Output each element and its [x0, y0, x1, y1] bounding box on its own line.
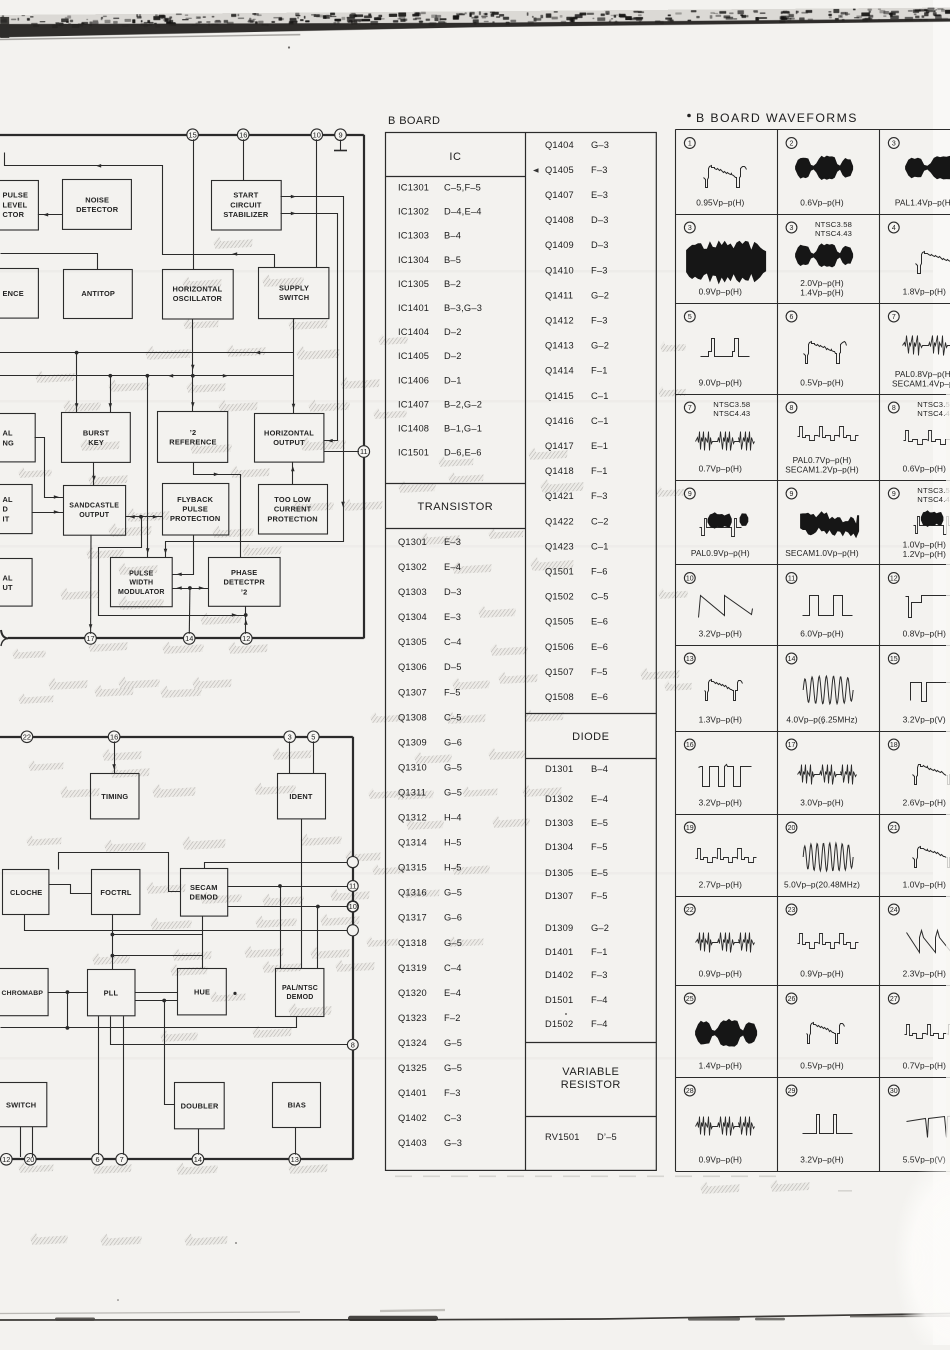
- svg-text:’2: ’2: [190, 428, 197, 437]
- svg-text:BURST: BURST: [83, 428, 110, 437]
- svg-text:Q1412: Q1412: [545, 316, 574, 326]
- svg-text:16: 16: [686, 742, 694, 749]
- svg-text:Q1401: Q1401: [398, 1088, 427, 1098]
- svg-text:24: 24: [890, 907, 898, 914]
- waveform cell 1: [684, 138, 746, 208]
- svg-text:NG: NG: [3, 438, 15, 447]
- pin 15: [187, 129, 199, 141]
- transistor row Q1310: [398, 762, 462, 772]
- svg-text:3: 3: [790, 225, 794, 232]
- svg-text:Q1320: Q1320: [398, 988, 427, 998]
- svg-text:0.5Vp–p(H): 0.5Vp–p(H): [800, 378, 844, 388]
- svg-text:1: 1: [688, 141, 692, 148]
- block CHROMA BANDPASS (cut at page edge): [0, 969, 48, 1016]
- svg-text:C–4: C–4: [444, 963, 462, 973]
- wire: pin 16 down to start circuit stabilizer: [243, 139, 245, 180]
- svg-text:14: 14: [194, 1155, 202, 1164]
- wire: cloche to foctrl: [49, 885, 92, 894]
- waveform cell 3: [786, 220, 853, 298]
- transistor row Q1401: [398, 1088, 461, 1098]
- transistor row Q1417: [545, 441, 608, 451]
- svg-text:0.9Vp–p(H): 0.9Vp–p(H): [699, 969, 743, 979]
- svg-text:Q1502: Q1502: [545, 592, 574, 602]
- svg-text:VARIABLE: VARIABLE: [562, 1066, 619, 1078]
- transistor row Q1324: [398, 1038, 462, 1048]
- svg-text:10: 10: [313, 130, 321, 139]
- svg-text:D: D: [3, 505, 9, 514]
- ground symbol at pin 9: [334, 140, 347, 151]
- svg-text:Q1501: Q1501: [545, 567, 574, 577]
- waveform cell 26: [786, 993, 844, 1070]
- svg-text:20: 20: [26, 1155, 34, 1164]
- svg-text:NTSC4.43: NTSC4.43: [815, 229, 852, 238]
- svg-text:Q1408: Q1408: [545, 215, 574, 225]
- svg-text:11: 11: [788, 576, 795, 583]
- transistor row Q1423: [545, 541, 609, 551]
- svg-text:Q1423: Q1423: [545, 541, 574, 551]
- waveform cell 19: [684, 822, 756, 889]
- svg-text:1.2Vp–p(H): 1.2Vp–p(H): [903, 549, 947, 559]
- svg-text:D–2: D–2: [444, 327, 462, 337]
- wire: pin 3 to ident: [289, 741, 291, 773]
- block BURST KEY: [62, 413, 131, 463]
- svg-text:1.4Vp–p(H): 1.4Vp–p(H): [699, 1061, 743, 1071]
- svg-text:19: 19: [686, 825, 694, 832]
- diode row D1304: [545, 842, 608, 852]
- svg-text:12: 12: [242, 634, 250, 643]
- diode row D1305: [545, 868, 608, 878]
- svg-text:Q1309: Q1309: [398, 737, 427, 747]
- svg-text:G–5: G–5: [444, 788, 462, 798]
- wire W7: start circuit line 1 down to pulse width modulator: [164, 195, 345, 558]
- svg-text:PAL0.7Vp–p(H): PAL0.7Vp–p(H): [793, 455, 852, 465]
- svg-text:F–4: F–4: [591, 995, 608, 1005]
- svg-text:C–3: C–3: [444, 1113, 462, 1123]
- svg-text:9: 9: [790, 491, 794, 498]
- svg-text:3: 3: [688, 225, 692, 232]
- block HORIZONTAL OUTPUT: [255, 414, 324, 463]
- waveform cell 3: [888, 138, 950, 208]
- wire: left edge to ANTITOP top: [1, 254, 98, 270]
- svg-text:CTOR: CTOR: [3, 210, 25, 219]
- svg-text:B BOARD: B BOARD: [388, 115, 440, 127]
- svg-text:G–5: G–5: [444, 888, 462, 898]
- svg-text:IC1501: IC1501: [398, 448, 429, 458]
- IC row IC1301: [398, 183, 481, 193]
- transistor row Q1507: [545, 667, 608, 677]
- wire: burst key to sandcastle output: [92, 463, 96, 486]
- block FOCTRL: [92, 870, 140, 915]
- svg-text:Q1318: Q1318: [398, 938, 427, 948]
- svg-text:9.0Vp–p(H): 9.0Vp–p(H): [699, 378, 743, 388]
- svg-text:2.3Vp–p(H): 2.3Vp–p(H): [903, 969, 947, 979]
- svg-text:Q1413: Q1413: [545, 341, 574, 351]
- svg-text:G–5: G–5: [444, 1038, 462, 1048]
- svg-text:2.6Vp–p(H): 2.6Vp–p(H): [903, 798, 947, 808]
- waveform cell 4: [888, 222, 950, 296]
- svg-text:SECAM1.4Vp–p(: SECAM1.4Vp–p(: [892, 379, 950, 389]
- svg-text:SWITCH: SWITCH: [6, 1100, 36, 1109]
- svg-text:TRANSISTOR: TRANSISTOR: [418, 501, 494, 513]
- svg-text:3.2Vp–p(V): 3.2Vp–p(V): [903, 715, 946, 725]
- svg-text:IC1305: IC1305: [398, 279, 429, 289]
- wire: bias to pin 13: [295, 1128, 297, 1155]
- svg-text:IT: IT: [3, 514, 10, 523]
- wire: pll to hue lower, branch to doubler: [135, 999, 178, 1105]
- svg-text:Q1421: Q1421: [545, 491, 574, 501]
- svg-text:TOO LOW: TOO LOW: [274, 495, 311, 504]
- wire: secam demod to pin 10: [227, 905, 347, 909]
- block ANTITOP: [64, 270, 133, 319]
- transistor row Q1416: [545, 416, 609, 426]
- svg-text:Q1315: Q1315: [398, 863, 427, 873]
- svg-text:PHASE: PHASE: [231, 568, 257, 577]
- svg-text:G–6: G–6: [444, 913, 462, 923]
- open connector circle: [347, 857, 358, 868]
- svg-text:G–5: G–5: [444, 762, 462, 772]
- transistor row Q1410: [545, 265, 608, 275]
- svg-text:7: 7: [120, 1155, 124, 1164]
- svg-text:Q1301: Q1301: [398, 537, 427, 547]
- wire: pll to hue upper: [135, 992, 178, 994]
- wire: pin 15 down to horizontal oscillator: [193, 139, 195, 269]
- wire: too low current protection up to horizontal output: [291, 462, 295, 485]
- block SECAM DEMOD: [181, 869, 228, 917]
- svg-text:ANTITOP: ANTITOP: [81, 289, 115, 298]
- svg-text:DETECTPR: DETECTPR: [223, 578, 265, 587]
- svg-text:F–5: F–5: [591, 842, 608, 852]
- svg-text:5: 5: [311, 733, 315, 742]
- section header IC: [449, 151, 461, 163]
- wire: pll bottom to pin 7: [123, 1016, 125, 1155]
- svg-text:E–4: E–4: [591, 794, 608, 804]
- wire: sandcastle output down to pin 17: [89, 535, 93, 634]
- svg-text:18: 18: [890, 742, 898, 749]
- svg-text:F–5: F–5: [591, 891, 608, 901]
- pin 8: [347, 1039, 358, 1050]
- svg-text:KEY: KEY: [88, 438, 104, 447]
- transistor row Q1508: [545, 692, 608, 702]
- svg-text:13: 13: [291, 1155, 299, 1164]
- svg-text:5.0Vp–p(20.48MHz): 5.0Vp–p(20.48MHz): [784, 880, 860, 890]
- parts table frame: [386, 132, 657, 1170]
- svg-text:B–2,G–2: B–2,G–2: [444, 399, 482, 409]
- block H PULSE LEVEL DETECTOR (cut at page edge): [0, 181, 38, 231]
- svg-text:CIRCUIT: CIRCUIT: [230, 200, 262, 209]
- svg-text:H–4: H–4: [444, 813, 462, 823]
- waveform cell 17: [786, 739, 856, 807]
- svg-text:23: 23: [788, 907, 796, 914]
- svg-text:Q1414: Q1414: [545, 366, 574, 376]
- svg-text:AL: AL: [3, 429, 14, 438]
- wire: chromabp to pll: [48, 990, 88, 994]
- svg-text:15: 15: [188, 130, 196, 139]
- wire: cloche top loop to secam demod: [59, 853, 181, 892]
- wire: tap secam-foctrl lower: [112, 955, 202, 957]
- wire W8: start circuit line 2 to horizontal output: [281, 212, 338, 443]
- svg-text:11: 11: [349, 882, 357, 891]
- svg-text:RV1501: RV1501: [545, 1132, 580, 1142]
- svg-text:Q1308: Q1308: [398, 712, 427, 722]
- svg-text:WIDTH: WIDTH: [129, 580, 153, 587]
- svg-text:Q1418: Q1418: [545, 466, 574, 476]
- transistor row Q1409: [545, 240, 609, 250]
- svg-text:D1305: D1305: [545, 868, 573, 878]
- svg-text:SANDCASTLE: SANDCASTLE: [69, 503, 119, 510]
- diode row D1309: [545, 923, 609, 933]
- block TOO LOW CURRENT PROTECTION: [259, 485, 328, 535]
- svg-text:0.7Vp–p(H): 0.7Vp–p(H): [699, 464, 743, 474]
- svg-text:E–6: E–6: [591, 692, 608, 702]
- svg-text:D1402: D1402: [545, 970, 573, 980]
- svg-text:TIMING: TIMING: [101, 792, 128, 801]
- svg-text:PULSE: PULSE: [3, 191, 29, 200]
- svg-text:F–1: F–1: [591, 366, 608, 376]
- svg-text:E–3: E–3: [444, 537, 461, 547]
- svg-text:C–1: C–1: [591, 541, 609, 551]
- waveform cell 9: [684, 488, 749, 558]
- svg-text:D1303: D1303: [545, 818, 573, 828]
- transistor row Q1317: [398, 913, 462, 923]
- pin 10 (diagram 2): [347, 901, 358, 912]
- pin 12 (diagram 2): [1, 1154, 13, 1166]
- svg-text:C–2: C–2: [591, 516, 609, 526]
- svg-text:Q1402: Q1402: [398, 1113, 427, 1123]
- waveform cell 6: [786, 311, 846, 387]
- svg-text:STABILIZER: STABILIZER: [223, 210, 268, 219]
- svg-text:D1307: D1307: [545, 891, 573, 901]
- svg-text:Q1312: Q1312: [398, 813, 427, 823]
- svg-text:8: 8: [892, 405, 896, 412]
- svg-text:SECAM1.0Vp–p(H): SECAM1.0Vp–p(H): [785, 548, 859, 558]
- svg-text:25: 25: [686, 996, 694, 1003]
- svg-text:8: 8: [790, 405, 794, 412]
- svg-text:F–5: F–5: [591, 667, 608, 677]
- waveform cell 5: [684, 311, 749, 387]
- svg-text:22: 22: [23, 733, 31, 742]
- pin 6: [92, 1154, 104, 1166]
- svg-text:G–6: G–6: [444, 737, 462, 747]
- svg-text:E–5: E–5: [591, 868, 608, 878]
- svg-text:D–5: D–5: [444, 662, 462, 672]
- wire: switch bottoms: [21, 1127, 33, 1157]
- waveform cell 15: [888, 653, 950, 724]
- svg-text:E–6: E–6: [591, 642, 608, 652]
- diode row D1401: [545, 947, 608, 957]
- block PULSE WIDTH MODULATOR: [111, 558, 173, 607]
- svg-text:AL: AL: [3, 574, 14, 583]
- svg-text:F–3: F–3: [591, 970, 608, 980]
- svg-text:0.6Vp–p(H): 0.6Vp–p(H): [800, 198, 844, 208]
- transistor row Q1307: [398, 687, 461, 697]
- svg-text:Q1422: Q1422: [545, 516, 574, 526]
- waveform cell 9: [785, 488, 859, 558]
- svg-text:0.9Vp–p(H): 0.9Vp–p(H): [699, 1155, 743, 1165]
- svg-text:REFERENCE: REFERENCE: [169, 437, 216, 446]
- svg-text:D1502: D1502: [545, 1019, 573, 1029]
- svg-text:0.5Vp–p(H): 0.5Vp–p(H): [800, 1061, 844, 1071]
- svg-text:16: 16: [110, 733, 118, 742]
- svg-text:29: 29: [788, 1088, 796, 1095]
- pin 11 (diagram 2): [347, 881, 358, 892]
- transistor row Q1505: [545, 617, 608, 627]
- waveform cell 24: [888, 904, 950, 978]
- block PAL/NTSC DEMOD: [276, 969, 324, 1017]
- wire: sandcastle / flyback connector: [125, 515, 162, 519]
- svg-text:Q1508: Q1508: [545, 692, 574, 702]
- svg-text:15: 15: [890, 656, 898, 663]
- svg-text:SECAM: SECAM: [190, 883, 218, 892]
- svg-text:D–1: D–1: [444, 375, 462, 385]
- svg-text:B–4: B–4: [591, 764, 608, 774]
- svg-text:G–2: G–2: [591, 341, 609, 351]
- svg-text:IC1304: IC1304: [398, 255, 429, 265]
- scanned page top edge strip: [0, 7, 950, 39]
- diagram 2 bus borders: [0, 737, 353, 1160]
- transistor row Q1413: [545, 341, 609, 351]
- svg-text:14: 14: [788, 656, 796, 663]
- transistor row Q1305: [398, 637, 462, 647]
- wire: secam demod to pin 11: [227, 884, 347, 888]
- svg-text:E–5: E–5: [591, 818, 608, 828]
- svg-text:B–3,G–3: B–3,G–3: [444, 303, 482, 313]
- section header TRANSISTOR: [418, 501, 494, 513]
- wire: pin 16 to timing: [112, 741, 116, 773]
- IC row IC1404: [398, 327, 462, 337]
- waveform cell 2: [786, 138, 853, 208]
- pin 14: [183, 633, 195, 645]
- svg-text:CURRENT: CURRENT: [274, 505, 312, 514]
- transistor row Q1402: [398, 1113, 462, 1123]
- svg-text:0.6Vp–p(H): 0.6Vp–p(H): [903, 464, 947, 474]
- waveform cell 20: [784, 822, 860, 889]
- transistor row Q1309: [398, 737, 462, 747]
- transistor row Q1314: [398, 838, 462, 848]
- svg-text:3: 3: [288, 733, 292, 742]
- svg-text:D1301: D1301: [545, 764, 573, 774]
- svg-text:D–3: D–3: [444, 587, 462, 597]
- svg-text:27: 27: [890, 996, 898, 1003]
- svg-text:B–2: B–2: [444, 279, 461, 289]
- diagram 1 outer border: [0, 135, 364, 646]
- wire: doubler to pin 14: [198, 1129, 200, 1155]
- pin 20: [25, 1154, 37, 1166]
- svg-text:SECAM1.2Vp–p(H): SECAM1.2Vp–p(H): [785, 465, 859, 475]
- waveform cell 27: [888, 993, 950, 1070]
- svg-text:Q1307: Q1307: [398, 687, 427, 697]
- svg-text:IC1303: IC1303: [398, 231, 429, 241]
- transistor row Q1506: [545, 642, 608, 652]
- wire: oscillator down through line B to 2 reference: [191, 319, 195, 412]
- transistor row Q1308: [398, 712, 462, 722]
- transistor row Q1316: [398, 888, 462, 898]
- svg-text:Q1411: Q1411: [545, 290, 573, 300]
- svg-text:12: 12: [2, 1155, 10, 1164]
- svg-text:HUE: HUE: [194, 988, 210, 997]
- svg-text:3.2Vp–p(H): 3.2Vp–p(H): [699, 629, 743, 639]
- transistor row Q1304: [398, 612, 461, 622]
- svg-text:9: 9: [338, 130, 342, 139]
- transistor row Q1422: [545, 516, 609, 526]
- svg-text:0.9Vp–p(H): 0.9Vp–p(H): [800, 969, 844, 979]
- block FLYBACK PULSE PROTECTION: [163, 484, 229, 536]
- block REFERENCE (cut at page edge): [0, 269, 38, 319]
- svg-text:NTSC4.43: NTSC4.43: [713, 409, 750, 418]
- wire line B: [0, 374, 294, 378]
- svg-text:LEVEL: LEVEL: [3, 200, 28, 209]
- svg-text:D’–5: D’–5: [597, 1132, 617, 1142]
- block HORIZONTAL OSCILLATOR: [163, 270, 234, 320]
- transistor row Q1421: [545, 491, 608, 501]
- waveform cell 23: [786, 904, 858, 978]
- svg-text:IC1401: IC1401: [398, 303, 429, 313]
- svg-text:Q1302: Q1302: [398, 562, 427, 572]
- wire: pll bottom to pin 6: [98, 1016, 100, 1155]
- block IDENT: [278, 774, 326, 819]
- pin 10: [311, 129, 323, 141]
- block VERTICAL OUT (cut at page edge): [0, 559, 32, 607]
- svg-text:10: 10: [686, 576, 694, 583]
- transistor row Q1302: [398, 562, 461, 572]
- transistor row Q1318: [398, 938, 462, 948]
- pin 16 (diagram 2): [108, 731, 120, 743]
- svg-text:C–1: C–1: [591, 391, 609, 401]
- wire: line B junction down to pulse width modulator: [146, 376, 150, 558]
- svg-text:Q1303: Q1303: [398, 587, 427, 597]
- waveform cell 21: [888, 822, 950, 889]
- block PHASE DETECTPR 2: [209, 558, 281, 607]
- svg-text:D–3: D–3: [591, 240, 609, 250]
- svg-text:PULSE: PULSE: [129, 570, 153, 577]
- transistor row Q1323: [398, 1013, 461, 1023]
- wire: cloche bottom to open connector: [25, 915, 348, 931]
- transistor row Q1414: [545, 366, 608, 376]
- transistor row Q1408: [545, 215, 609, 225]
- pin 11: [358, 446, 370, 458]
- svg-text:1.4Vp–p(H): 1.4Vp–p(H): [800, 288, 844, 298]
- waveform cell 18: [888, 739, 950, 807]
- svg-text:1.0Vp–p(H): 1.0Vp–p(H): [903, 880, 947, 890]
- open connector circle: [347, 925, 358, 936]
- svg-text:E–4: E–4: [444, 988, 461, 998]
- svg-text:9: 9: [688, 491, 692, 498]
- svg-text:START: START: [233, 191, 258, 200]
- svg-text:C–4: C–4: [444, 637, 462, 647]
- transistor row Q1502: [545, 592, 609, 602]
- svg-text:HORIZONTAL: HORIZONTAL: [172, 285, 222, 294]
- block BIAS: [273, 1083, 321, 1128]
- svg-text:G–3: G–3: [444, 1138, 462, 1148]
- svg-text:PULSE: PULSE: [182, 505, 208, 514]
- svg-text:1.8Vp–p(H): 1.8Vp–p(H): [903, 287, 947, 297]
- svg-text:NTSC4.43: NTSC4.43: [917, 495, 950, 504]
- wire: 2 reference to phase detectpr: [194, 463, 241, 558]
- svg-text:2: 2: [790, 141, 794, 148]
- svg-text:14: 14: [185, 634, 193, 643]
- svg-text:8: 8: [351, 1040, 355, 1049]
- svg-text:9: 9: [892, 491, 896, 498]
- IC row IC1303: [398, 231, 461, 241]
- wire: line B junction down to burst key: [109, 376, 113, 413]
- wire: pin 10 down to supply switch: [316, 139, 318, 267]
- transistor row Q1306: [398, 662, 462, 672]
- wire: pin 12 up to phase detectpr: [244, 607, 248, 634]
- svg-text:Q1416: Q1416: [545, 416, 574, 426]
- svg-text:Q1507: Q1507: [545, 667, 574, 677]
- waveform cell 12: [888, 573, 950, 639]
- wire: secam demod down to hue: [202, 916, 204, 969]
- svg-text:IC1302: IC1302: [398, 207, 429, 217]
